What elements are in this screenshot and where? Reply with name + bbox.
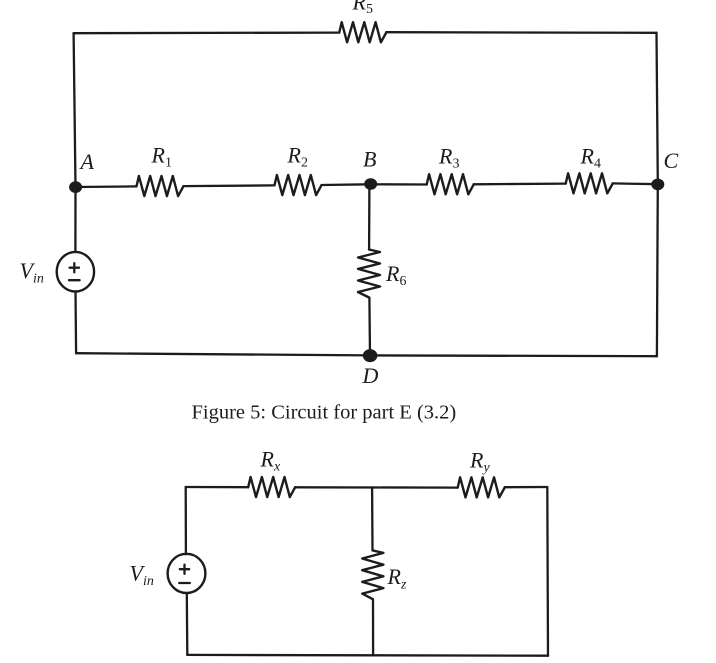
svg-text:Rx: Rx <box>260 447 281 475</box>
node B <box>363 146 377 190</box>
svg-text:R3: R3 <box>438 144 459 172</box>
resistor R6 <box>358 250 406 298</box>
wire right vertical lower <box>656 184 659 356</box>
wire Rz to bottom wire <box>372 599 374 655</box>
wire Ry to top-right corner <box>505 486 548 489</box>
voltage source Vin (bottom circuit) <box>130 554 206 593</box>
wire R3 to R4 <box>474 182 566 185</box>
wire B to R3 <box>371 183 427 185</box>
wire bottom horizontal (top circuit) <box>76 353 657 356</box>
svg-text:R2: R2 <box>287 143 308 171</box>
wire bottom horizontal (bottom circuit) <box>187 654 548 657</box>
wire R6 to node D <box>368 298 371 356</box>
resistor R3 <box>427 144 474 195</box>
svg-text:R5: R5 <box>352 0 373 17</box>
resistor R5 <box>339 0 386 42</box>
wire right vertical upper <box>657 33 658 184</box>
svg-text:R1: R1 <box>151 143 172 171</box>
node D <box>362 349 379 388</box>
svg-text:Figure 5: Circuit for part E (: Figure 5: Circuit for part E (3.2) <box>192 402 457 424</box>
voltage source Vin (top circuit) <box>20 252 95 292</box>
svg-text:C: C <box>664 148 679 173</box>
wire R4 to node C <box>613 182 658 185</box>
resistor Rx <box>248 447 295 498</box>
wire top-left (bottom circuit) <box>186 486 249 489</box>
wire left vertical upper <box>74 33 76 187</box>
wire B to R6 <box>368 184 371 249</box>
wire Rx to Ry <box>295 486 458 489</box>
wire top-left horizontal <box>74 31 340 34</box>
resistor R2 <box>275 143 322 196</box>
wire middle vertical upper (bottom circuit) <box>371 487 374 550</box>
svg-text:R6: R6 <box>385 261 406 289</box>
svg-text:Ry: Ry <box>469 448 490 476</box>
svg-text:R4: R4 <box>580 144 601 172</box>
wire A to Vin top <box>74 187 76 252</box>
wire Vin to bottom-left corner <box>186 593 189 655</box>
wire left vertical (bottom circuit) <box>185 487 187 554</box>
svg-text:D: D <box>362 363 379 388</box>
wire Vin bottom to corner <box>74 292 77 354</box>
svg-text:Vin: Vin <box>130 561 154 590</box>
resistor Rz <box>362 550 407 599</box>
svg-text:A: A <box>79 149 95 174</box>
node A <box>69 149 94 193</box>
wire A to R1 <box>76 185 137 188</box>
wire R2 to node B <box>322 183 371 186</box>
wire top-right horizontal <box>386 31 656 34</box>
svg-text:Rz: Rz <box>387 564 407 593</box>
node C <box>651 148 678 190</box>
svg-text:Vin: Vin <box>20 258 44 287</box>
resistor R1 <box>137 143 184 197</box>
svg-text:B: B <box>363 146 376 171</box>
resistor Ry <box>458 448 505 498</box>
wire R1 to R2 <box>183 184 274 187</box>
wire right vertical (bottom circuit) <box>546 487 549 656</box>
resistor R4 <box>566 144 613 194</box>
